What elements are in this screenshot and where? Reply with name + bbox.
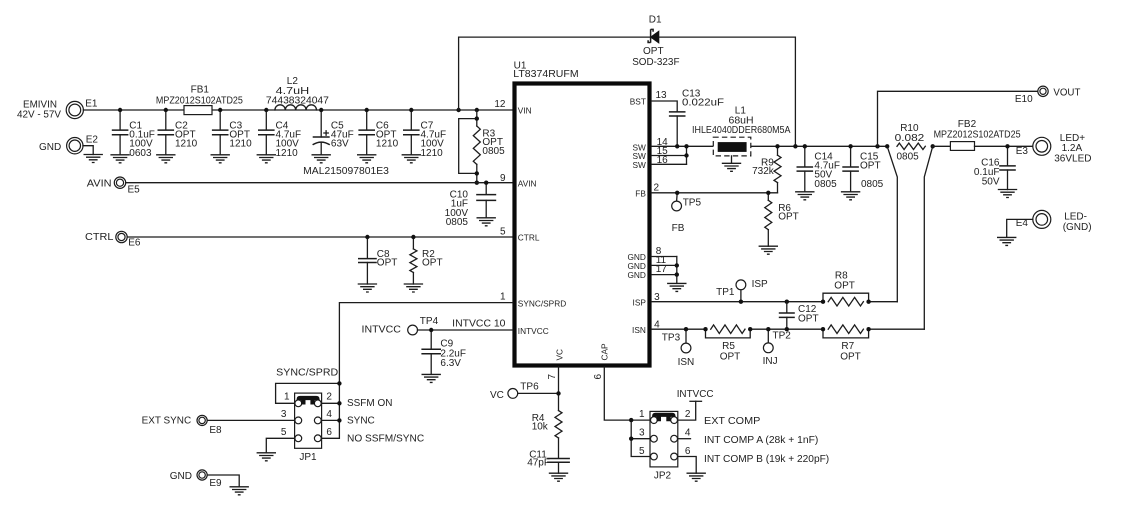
capacitor C8 xyxy=(358,237,397,284)
wire E8 to JP1 pin 3 xyxy=(207,419,294,421)
svg-text:VC: VC xyxy=(490,390,504,401)
capacitor C5 electrolytic xyxy=(313,110,354,155)
svg-text:OPT: OPT xyxy=(798,313,819,324)
svg-text:TP6: TP6 xyxy=(520,381,539,392)
svg-text:E6: E6 xyxy=(128,238,141,249)
capacitor C12 xyxy=(779,302,819,330)
test point TP2 INJ xyxy=(763,329,792,367)
svg-text:2: 2 xyxy=(326,391,332,402)
wire R10 kelvin to ISP xyxy=(887,146,897,301)
junction dots at R10 xyxy=(885,144,935,148)
svg-text:BST: BST xyxy=(630,97,646,107)
svg-text:36VLED: 36VLED xyxy=(1054,154,1091,165)
ferrite bead FB2 xyxy=(934,119,1021,150)
svg-text:1: 1 xyxy=(500,292,506,303)
svg-text:OPT: OPT xyxy=(643,46,664,57)
svg-text:6: 6 xyxy=(685,446,691,457)
svg-text:SYNC/SPRD: SYNC/SPRD xyxy=(518,298,566,308)
wire ISN rail xyxy=(651,328,924,330)
terminal E9 GND xyxy=(170,470,222,489)
resistor R3 xyxy=(473,110,505,183)
terminal E6 CTRL xyxy=(85,231,141,248)
resistor R5 xyxy=(711,325,745,363)
svg-text:E9: E9 xyxy=(209,478,222,489)
svg-text:10k: 10k xyxy=(532,421,549,432)
svg-text:OPT: OPT xyxy=(778,212,799,223)
wire SW to VOUT E10 xyxy=(878,91,1038,146)
svg-text:1210: 1210 xyxy=(421,148,444,159)
svg-text:OPT: OPT xyxy=(377,258,398,269)
svg-text:1210: 1210 xyxy=(276,148,299,159)
svg-text:E2: E2 xyxy=(86,135,99,146)
terminal E10 VOUT xyxy=(1015,86,1081,105)
terminal E5 AVIN xyxy=(87,177,140,196)
capacitor C10 xyxy=(445,183,497,228)
resistor R7 xyxy=(828,325,863,363)
svg-text:SOD-323F: SOD-323F xyxy=(632,57,679,68)
ground at E9 xyxy=(230,487,249,495)
junction dots on SW rail xyxy=(775,144,879,148)
svg-text:EXT SYNC: EXT SYNC xyxy=(142,416,192,427)
wire E4 to ground xyxy=(1007,219,1033,237)
svg-text:4: 4 xyxy=(685,428,691,439)
inductor L1 shielded xyxy=(692,106,791,164)
wire R8 bypass bracket xyxy=(823,293,869,302)
ground at C15 xyxy=(841,192,860,200)
svg-text:5: 5 xyxy=(281,427,287,438)
junction dots GND pins xyxy=(675,263,679,277)
wire R10 to FB2 xyxy=(933,145,951,147)
wire D1 anode to SW node xyxy=(659,37,795,146)
svg-text:6: 6 xyxy=(326,427,332,438)
ground at R2 xyxy=(404,284,423,292)
jumper JP2 xyxy=(639,409,691,482)
junction dots at R3 xyxy=(475,116,479,184)
ground at C14 xyxy=(795,192,814,200)
U1 pin number 10 and INTVCC net label xyxy=(452,318,506,329)
wire AVIN rail xyxy=(126,182,513,184)
U1 pin numbers left xyxy=(494,99,506,303)
resistor R6 xyxy=(765,193,799,246)
wire R3 bypass bracket xyxy=(459,119,477,174)
ground at C8 xyxy=(358,284,377,292)
wire R5 bypass bracket xyxy=(706,329,751,338)
svg-text:AVIN: AVIN xyxy=(518,178,537,188)
resistor R2 xyxy=(410,237,443,284)
svg-text:INTVCC: INTVCC xyxy=(677,389,714,400)
svg-text:3: 3 xyxy=(639,428,645,439)
test point TP1 xyxy=(716,279,768,302)
svg-text:VIN: VIN xyxy=(518,106,532,116)
svg-text:5: 5 xyxy=(500,227,506,238)
svg-text:1210: 1210 xyxy=(175,139,198,150)
svg-text:5: 5 xyxy=(639,446,645,457)
svg-text:0805: 0805 xyxy=(861,179,884,190)
wire FB2 to E3 xyxy=(975,145,1033,147)
svg-text:6: 6 xyxy=(593,374,604,380)
svg-text:TP2: TP2 xyxy=(773,331,792,342)
svg-text:EXT COMP: EXT COMP xyxy=(704,416,761,427)
U1 bottom pin names VC CAP xyxy=(555,343,610,361)
resistor R9 xyxy=(752,146,781,193)
ground at L1 xyxy=(722,163,741,171)
label SYNC/SPRD net xyxy=(276,367,338,378)
svg-text:CTRL: CTRL xyxy=(518,233,540,243)
label MAL215097801E3 for C5 xyxy=(303,166,389,177)
junction dots SYNC net xyxy=(337,381,341,422)
junction dots on FB line xyxy=(675,191,771,195)
capacitor C4 xyxy=(258,110,301,159)
svg-text:42V - 57V: 42V - 57V xyxy=(17,109,61,120)
capacitor C9 xyxy=(421,330,466,374)
svg-text:47pF: 47pF xyxy=(527,458,550,469)
svg-text:SYNC/SPRD: SYNC/SPRD xyxy=(276,367,338,378)
svg-text:INTVCC 10: INTVCC 10 xyxy=(452,318,506,329)
terminal E2 GND xyxy=(39,135,98,154)
test point TP4 INTVCC xyxy=(362,316,439,335)
svg-text:732k: 732k xyxy=(752,166,775,177)
wire SW pins 15 16 stubs xyxy=(651,146,686,164)
wire JP1 pin1 bracket xyxy=(276,383,340,403)
svg-text:R5: R5 xyxy=(722,341,735,352)
svg-text:1210: 1210 xyxy=(376,139,399,150)
junction dot C16 xyxy=(1005,144,1009,148)
svg-text:TP3: TP3 xyxy=(662,333,681,344)
wire CTRL rail xyxy=(127,236,513,238)
ground at C10 xyxy=(477,218,496,226)
svg-text:MPZ2012S102ATD25: MPZ2012S102ATD25 xyxy=(156,96,243,107)
svg-text:1: 1 xyxy=(639,409,645,420)
svg-text:4: 4 xyxy=(326,409,332,420)
U1 left pin names xyxy=(518,106,566,336)
ground at C4 xyxy=(257,155,276,163)
ground at C2 xyxy=(156,155,175,163)
svg-text:GND: GND xyxy=(170,471,192,482)
svg-text:63V: 63V xyxy=(331,139,349,150)
wire BST pin 13 xyxy=(651,101,677,112)
svg-text:2: 2 xyxy=(654,182,660,193)
capacitor C13 xyxy=(669,89,724,147)
capacitor C16 xyxy=(974,146,1016,189)
svg-text:1210: 1210 xyxy=(229,139,252,150)
svg-text:VC: VC xyxy=(555,349,565,361)
ground at E2 xyxy=(84,155,103,163)
svg-text:E8: E8 xyxy=(209,425,222,436)
ground at C5 xyxy=(312,155,331,163)
svg-text:OPT: OPT xyxy=(834,281,855,292)
svg-text:R7: R7 xyxy=(841,341,854,352)
svg-text:2: 2 xyxy=(685,409,691,420)
ground at C16 xyxy=(998,190,1017,198)
svg-text:SSFM ON: SSFM ON xyxy=(347,398,392,409)
svg-text:ISP: ISP xyxy=(752,279,768,290)
ground at C11 xyxy=(549,473,568,481)
terminal E4 LED- xyxy=(1016,210,1092,233)
svg-text:FB: FB xyxy=(635,189,646,199)
wire INTVCC pin 10 xyxy=(418,329,513,331)
label JP1 position names xyxy=(347,398,424,445)
svg-text:VOUT: VOUT xyxy=(1053,88,1080,99)
svg-text:74438324047: 74438324047 xyxy=(266,95,329,106)
ferrite bead FB1 xyxy=(156,84,243,114)
svg-text:FB1: FB1 xyxy=(191,84,210,95)
capacitor C2 xyxy=(158,110,198,155)
svg-text:MAL215097801E3: MAL215097801E3 xyxy=(303,166,389,177)
wire E2 to ground xyxy=(83,146,93,155)
svg-text:GND: GND xyxy=(39,142,61,153)
svg-text:INTVCC: INTVCC xyxy=(362,324,401,335)
wire E9 to ground xyxy=(207,475,239,487)
label INTVCC at JP2 xyxy=(677,389,714,400)
svg-text:0805: 0805 xyxy=(482,146,505,157)
wire JP2 left bracket xyxy=(631,420,650,456)
wire JP2 pin 4 stub xyxy=(678,438,691,440)
svg-text:AVIN: AVIN xyxy=(87,178,112,189)
capacitor C11 xyxy=(527,450,570,474)
svg-text:INTVCC: INTVCC xyxy=(518,326,549,336)
resistor R10 current sense xyxy=(895,123,926,163)
wire R7 bypass bracket xyxy=(823,329,869,338)
svg-text:E1: E1 xyxy=(85,99,98,110)
capacitor C1 xyxy=(112,110,155,159)
svg-text:E5: E5 xyxy=(128,185,141,196)
U1 pin numbers right xyxy=(654,90,669,330)
diode D1 schottky xyxy=(632,15,679,68)
svg-text:INT COMP B (19k + 220pF): INT COMP B (19k + 220pF) xyxy=(704,454,829,465)
svg-text:(GND): (GND) xyxy=(1063,222,1092,233)
svg-text:OPT: OPT xyxy=(840,351,861,362)
test point TP6 VC xyxy=(490,381,559,401)
svg-text:3: 3 xyxy=(281,409,287,420)
svg-text:FB: FB xyxy=(672,223,685,234)
svg-text:SW: SW xyxy=(633,160,647,170)
svg-text:OPT: OPT xyxy=(720,351,741,362)
svg-text:9: 9 xyxy=(500,173,506,184)
ground at U1 GND pins xyxy=(667,283,686,291)
wire SYNC/SPRD pin 1 net xyxy=(322,303,513,439)
svg-text:INJ: INJ xyxy=(763,356,778,367)
svg-text:ISP: ISP xyxy=(633,297,647,307)
wire GND pins 8 11 17 xyxy=(651,257,676,284)
svg-text:ISN: ISN xyxy=(678,357,695,368)
capacitor C6 xyxy=(358,110,398,155)
op-amp U1 LT8374RUFM body xyxy=(513,61,649,366)
svg-text:TP5: TP5 xyxy=(683,198,702,209)
svg-text:OPT: OPT xyxy=(860,161,881,172)
svg-text:JP2: JP2 xyxy=(654,471,672,482)
svg-text:7: 7 xyxy=(547,374,558,380)
resistor R4 xyxy=(532,411,562,459)
terminal E1 EMIVIN input xyxy=(17,99,98,121)
svg-text:1.2A: 1.2A xyxy=(1062,143,1083,154)
wire VC pin 7 xyxy=(558,367,560,411)
capacitor C15 xyxy=(842,146,883,192)
wire FB pin 2 xyxy=(651,192,777,194)
junction dots on ISP rail xyxy=(739,300,871,304)
svg-text:CAP: CAP xyxy=(599,343,609,361)
wire JP2 pin 6 to ground xyxy=(678,457,696,474)
svg-text:0805: 0805 xyxy=(446,217,469,228)
wire CAP pin 6 to JP2 xyxy=(604,367,650,420)
junction dots JP2 bracket xyxy=(629,418,633,441)
svg-text:0805: 0805 xyxy=(814,179,837,190)
svg-text:OPT: OPT xyxy=(422,258,443,269)
svg-text:MPZ2012S102ATD25: MPZ2012S102ATD25 xyxy=(934,129,1021,140)
ground at C9 xyxy=(422,374,441,382)
resistor R8 xyxy=(828,271,863,306)
ground at C7 xyxy=(402,155,421,163)
junction dot VC xyxy=(556,391,560,395)
wire JP1 pin2 pin4 stubs xyxy=(322,403,340,420)
U1 right pin names xyxy=(627,97,646,335)
svg-text:50V: 50V xyxy=(982,176,1000,187)
svg-text:JP1: JP1 xyxy=(299,452,317,463)
ground at JP1 pin 5 xyxy=(257,453,276,461)
svg-text:E3: E3 xyxy=(1016,146,1029,157)
junction dot C9 xyxy=(429,328,433,332)
junction dots on ISN rail xyxy=(684,327,871,331)
svg-text:0805: 0805 xyxy=(897,152,920,163)
svg-text:CTRL: CTRL xyxy=(85,232,114,243)
junction dots on CTRL rail xyxy=(365,235,415,239)
svg-text:TP1: TP1 xyxy=(716,287,735,298)
ground at C6 xyxy=(357,155,376,163)
wire VIN rail xyxy=(83,109,512,111)
junction dot AVIN/C10 xyxy=(484,181,488,185)
ground at JP2 pin 6 xyxy=(687,473,706,481)
svg-text:GND: GND xyxy=(627,270,645,280)
jumper JP1 xyxy=(281,391,333,463)
ground at E4 xyxy=(997,237,1016,245)
terminal E8 EXT SYNC xyxy=(142,415,222,436)
junction dots SW pins xyxy=(675,144,689,158)
svg-text:1: 1 xyxy=(284,391,290,402)
svg-text:E10: E10 xyxy=(1015,94,1033,105)
wire VIN to D1 cathode xyxy=(459,37,651,110)
svg-text:NO SSFM/SYNC: NO SSFM/SYNC xyxy=(347,434,424,445)
svg-text:IHLE4040DDER680M5A: IHLE4040DDER680M5A xyxy=(692,125,791,136)
svg-text:0.022uF: 0.022uF xyxy=(682,98,724,109)
svg-text:LT8374RUFM: LT8374RUFM xyxy=(513,69,578,80)
ground at C1 xyxy=(110,155,129,163)
ground at C3 xyxy=(211,155,230,163)
wire ISP rail xyxy=(651,301,897,303)
svg-text:0603: 0603 xyxy=(129,148,152,159)
capacitor C14 xyxy=(797,146,840,192)
test point TP5 xyxy=(672,193,702,234)
label JP2 position names xyxy=(704,416,829,465)
svg-text:LED-: LED- xyxy=(1064,211,1087,222)
svg-text:6.3V: 6.3V xyxy=(440,358,461,369)
terminal E3 LED+ xyxy=(1016,133,1092,165)
svg-text:12: 12 xyxy=(494,99,506,110)
svg-text:13: 13 xyxy=(656,90,668,101)
wire JP1 pin 5 to ground xyxy=(266,438,294,453)
svg-text:INT COMP A (28k + 1nF): INT COMP A (28k + 1nF) xyxy=(704,435,818,446)
svg-text:0.082: 0.082 xyxy=(895,133,925,144)
wire JP2 pin 2 to INTVCC tap xyxy=(678,401,702,420)
U1 pin numbers bottom 7 and 6 xyxy=(547,374,604,380)
svg-text:ISN: ISN xyxy=(632,325,646,335)
wire SW rail xyxy=(651,145,887,147)
inductor L2 xyxy=(266,76,329,110)
ground at R6 xyxy=(759,246,778,254)
wire R10 kelvin to ISN xyxy=(924,146,932,329)
svg-text:SYNC: SYNC xyxy=(347,415,375,426)
test point TP3 xyxy=(662,329,694,368)
capacitor C7 xyxy=(403,110,446,159)
svg-text:TP4: TP4 xyxy=(420,316,439,327)
junction dots on VIN rail xyxy=(118,108,479,112)
capacitor C3 xyxy=(212,110,252,155)
svg-text:D1: D1 xyxy=(649,15,662,26)
